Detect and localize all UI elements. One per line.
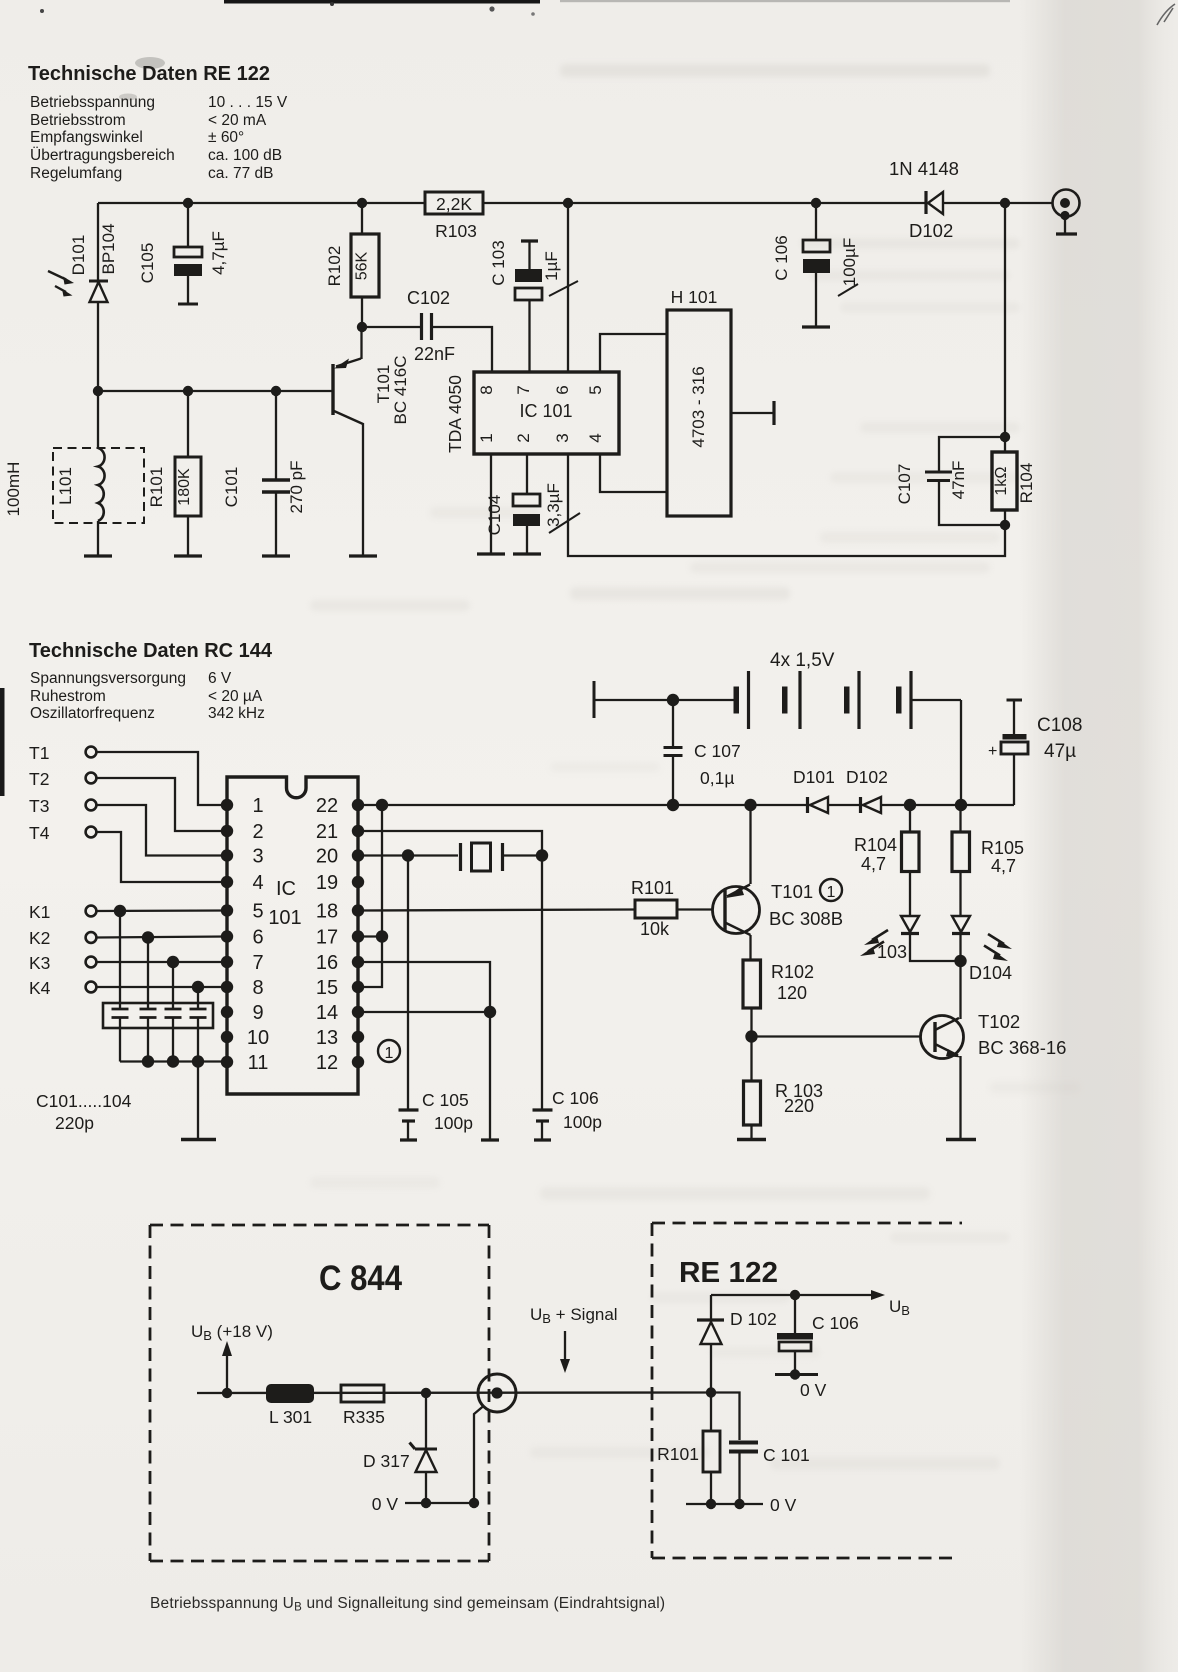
svg-text:C 107: C 107 <box>694 741 741 761</box>
wire K1 to C101 <box>119 911 121 1009</box>
svg-text:6 V: 6 V <box>208 670 232 687</box>
svg-text:D104: D104 <box>969 963 1012 983</box>
label C103 <box>489 240 508 285</box>
symbol circled 1 right <box>820 879 842 901</box>
label BC308B <box>769 908 843 929</box>
capacitor C106 rc <box>533 856 553 1141</box>
svg-text:1kΩ: 1kΩ <box>993 466 1010 495</box>
svg-text:R101: R101 <box>631 878 674 898</box>
svg-text:Technische Daten RC 144: Technische Daten RC 144 <box>29 640 273 662</box>
caption <box>150 1595 665 1614</box>
node D102/R104 junction <box>1000 198 1010 208</box>
svg-text:100mH: 100mH <box>4 462 23 517</box>
svg-text:2: 2 <box>514 433 533 442</box>
svg-text:101: 101 <box>268 907 301 929</box>
svg-text:C 844: C 844 <box>319 1259 402 1298</box>
svg-text:C 105: C 105 <box>422 1090 469 1110</box>
label UB out <box>889 1297 910 1318</box>
svg-text:3: 3 <box>252 846 263 868</box>
label R101 value <box>176 468 193 506</box>
svg-text:4x 1,5V: 4x 1,5V <box>770 650 835 671</box>
wire T3 to pin3 <box>97 805 228 856</box>
label UB +18V <box>191 1322 273 1343</box>
svg-text:47nF: 47nF <box>949 461 968 500</box>
svg-text:56K: 56K <box>354 251 371 280</box>
svg-text:0 V: 0 V <box>800 1380 827 1400</box>
label R102 <box>325 246 344 287</box>
resistor R102 <box>351 203 379 327</box>
label R105 rc <box>981 838 1024 858</box>
svg-text:IC 101: IC 101 <box>519 401 572 421</box>
resistor R103 rc <box>744 1037 761 1140</box>
label R104 value <box>993 466 1010 495</box>
svg-text:D102: D102 <box>846 767 888 787</box>
label C106 rc <box>552 1088 599 1108</box>
transistor T101 BC308B <box>713 805 760 960</box>
resistor R103 <box>425 192 483 214</box>
zener D317 <box>410 1393 438 1503</box>
pin 1 <box>477 433 496 442</box>
svg-text:± 60°: ± 60° <box>208 129 244 146</box>
diode D102 bottom <box>697 1295 724 1393</box>
svg-text:H 101: H 101 <box>671 287 718 307</box>
label BC368-16 <box>978 1037 1066 1058</box>
svg-text:10 . . . 15 V: 10 . . . 15 V <box>208 94 288 111</box>
svg-text:10: 10 <box>247 1027 269 1049</box>
svg-text:C105: C105 <box>138 243 157 284</box>
wire D101 branch <box>97 203 99 391</box>
symbol circled 1 left <box>378 1040 400 1062</box>
svg-text:D102: D102 <box>909 220 953 241</box>
node UB tap <box>222 1388 232 1398</box>
svg-text:1N 4148: 1N 4148 <box>889 158 959 179</box>
label D102 bottom <box>730 1309 777 1329</box>
capacitor C105 rc <box>399 856 419 1141</box>
node C107 rail <box>667 799 679 811</box>
svg-text:1: 1 <box>252 795 263 817</box>
node L101 junction <box>93 386 103 396</box>
title Technische Daten RE 122 <box>28 63 270 85</box>
svg-text:4703 - 316: 4703 - 316 <box>689 366 708 447</box>
wire H101 output <box>731 401 774 425</box>
wire jack sleeve <box>474 1406 484 1503</box>
label C106 <box>772 235 791 280</box>
svg-text:220: 220 <box>784 1096 814 1116</box>
label 101 <box>268 907 301 929</box>
svg-text:342 kHz: 342 kHz <box>208 705 265 722</box>
label D103 <box>877 942 907 962</box>
label C107 value <box>949 461 968 500</box>
wire K1 to pin5 <box>97 909 228 912</box>
capacitor C108 <box>961 700 1028 805</box>
svg-text:D 317: D 317 <box>363 1451 410 1471</box>
capacitors C101-C104 block <box>103 1003 213 1062</box>
svg-text:0 V: 0 V <box>372 1494 399 1514</box>
wire K4 branch to ground <box>197 1061 199 1139</box>
svg-text:22: 22 <box>316 795 338 817</box>
svg-text:0 V: 0 V <box>770 1495 797 1515</box>
resistor R105 rc <box>952 805 970 916</box>
label 4703-316 <box>689 366 708 447</box>
node battery C107 tap <box>667 694 679 706</box>
node bus C102 <box>142 1055 154 1067</box>
resistor R102 rc <box>743 960 761 1037</box>
node D103/D104 junction <box>954 955 966 967</box>
svg-text:+: + <box>988 743 997 760</box>
label D101 rc <box>793 767 835 787</box>
wire pin6 to rail <box>567 203 569 372</box>
svg-text:4: 4 <box>252 872 263 894</box>
capacitor C106 bottom <box>775 1295 818 1375</box>
svg-text:0,1µ: 0,1µ <box>700 768 734 788</box>
label T102 <box>978 1011 1020 1032</box>
svg-text:K1: K1 <box>29 902 50 922</box>
node R105 rail <box>955 799 967 811</box>
wire UB out <box>711 1290 885 1300</box>
svg-text:C107: C107 <box>895 464 914 505</box>
svg-text:T4: T4 <box>29 823 50 843</box>
svg-text:C 103: C 103 <box>489 240 508 285</box>
svg-text:6: 6 <box>553 385 572 394</box>
diode D101 rc <box>808 797 829 813</box>
output jack <box>1053 190 1080 235</box>
node C106 tap <box>811 198 821 208</box>
svg-text:T3: T3 <box>29 796 49 816</box>
svg-text:T2: T2 <box>29 769 49 789</box>
resistor R104 rc <box>902 805 920 916</box>
capacitor C107 rc <box>664 700 683 805</box>
wire K3 to pin7 <box>97 961 228 963</box>
pin 5 <box>586 385 605 394</box>
node C105 tap <box>183 198 193 208</box>
node C101 ground <box>734 1499 744 1509</box>
wire T4 to pin4 <box>97 832 228 882</box>
svg-text:C104: C104 <box>485 495 504 536</box>
pin 4 <box>586 433 605 442</box>
node K4 tap <box>192 981 204 993</box>
label R335 <box>343 1407 385 1427</box>
node C106 bottom tap <box>790 1290 800 1300</box>
pin 3 <box>553 433 572 442</box>
label 220p <box>55 1113 94 1133</box>
label C101 bottom <box>763 1445 810 1465</box>
svg-text:4: 4 <box>586 433 605 442</box>
svg-text:C101: C101 <box>222 467 241 508</box>
svg-text:K2: K2 <box>29 928 50 948</box>
label L301 <box>269 1407 312 1427</box>
svg-text:3: 3 <box>553 433 572 442</box>
label R104 rc <box>854 835 897 855</box>
svg-text:K3: K3 <box>29 953 50 973</box>
capacitor C107 <box>925 437 1005 525</box>
svg-text:R101: R101 <box>147 467 166 508</box>
led D104 <box>952 916 1012 1019</box>
svg-text:2,2K: 2,2K <box>436 194 472 214</box>
label D104 <box>969 963 1012 983</box>
label C106 value <box>838 238 859 296</box>
node C101 junction <box>271 386 281 396</box>
inductor L101 <box>53 391 144 556</box>
svg-text:ca. 77 dB: ca. 77 dB <box>208 165 274 182</box>
svg-text:R104: R104 <box>854 835 897 855</box>
node R102/C102/T101 junction <box>357 322 367 332</box>
svg-text:Technische Daten RE 122: Technische Daten RE 122 <box>28 63 270 85</box>
label C 844 <box>319 1259 402 1298</box>
svg-text:ca. 100 dB: ca. 100 dB <box>208 147 282 164</box>
label C108 value <box>1044 741 1076 762</box>
svg-text:Regelumfang: Regelumfang <box>30 165 122 182</box>
ic left pin dots <box>221 799 233 1068</box>
capacitor C105 <box>174 203 202 304</box>
label C105 value rc <box>434 1113 473 1133</box>
wire pin20 to crystal <box>358 854 458 856</box>
svg-text:Betriebsstrom: Betriebsstrom <box>30 112 126 129</box>
label 100mH <box>4 462 23 517</box>
svg-text:4,7: 4,7 <box>991 856 1016 876</box>
label D317 <box>363 1451 410 1471</box>
svg-text:12: 12 <box>316 1052 338 1074</box>
label C104 <box>485 495 504 536</box>
svg-text:120: 120 <box>777 983 807 1003</box>
label RE 122 box <box>679 1257 778 1289</box>
wire D102 to R104 <box>1004 203 1006 437</box>
terminal K2 <box>29 928 96 948</box>
wire pin14 join <box>358 1011 490 1013</box>
svg-text:C 106: C 106 <box>772 235 791 280</box>
node pin14/16 junction <box>484 1006 496 1018</box>
label R105 value rc <box>991 856 1016 876</box>
spec table RC 144 <box>30 670 265 722</box>
label C106 value rc <box>563 1112 602 1132</box>
svg-text:220p: 220p <box>55 1113 94 1133</box>
arrow UB up <box>222 1341 232 1393</box>
svg-text:C 106: C 106 <box>552 1088 599 1108</box>
label R102 value <box>354 251 371 280</box>
svg-text:R101: R101 <box>657 1444 699 1464</box>
pin 6 <box>553 385 572 394</box>
svg-text:BC 416C: BC 416C <box>391 356 410 425</box>
label TDA 4050 <box>445 375 465 453</box>
svg-text:10k: 10k <box>640 919 670 939</box>
svg-text:13: 13 <box>316 1027 338 1049</box>
svg-text:C108: C108 <box>1037 715 1082 736</box>
svg-text:R102: R102 <box>771 962 814 982</box>
svg-text:20: 20 <box>316 846 338 868</box>
svg-text:L 301: L 301 <box>269 1407 312 1427</box>
node D317 tap <box>421 1388 431 1398</box>
node R101 junction <box>183 386 193 396</box>
label C107 <box>895 464 914 505</box>
wire pin21 to crystal <box>358 831 542 856</box>
svg-text:R104: R104 <box>1017 463 1036 504</box>
svg-text:1: 1 <box>385 1045 394 1062</box>
label IC <box>276 878 296 900</box>
ic right pin dots <box>352 799 364 1068</box>
svg-text:5: 5 <box>586 385 605 394</box>
ic right pin numbers <box>316 795 338 1074</box>
svg-text:1: 1 <box>827 884 836 901</box>
svg-text:19: 19 <box>316 872 338 894</box>
label IC 101 <box>519 401 572 421</box>
label R102 value rc <box>777 983 807 1003</box>
terminal T2 <box>29 769 96 789</box>
node C106 ground <box>790 1369 800 1379</box>
label C106 bottom <box>812 1313 859 1333</box>
label R104 <box>1017 463 1036 504</box>
wire pins 17/15 to rail <box>358 805 382 987</box>
svg-text:C101.....104: C101.....104 <box>36 1091 132 1111</box>
node K1 tap <box>114 905 126 917</box>
wire K4 to C104 <box>197 987 199 1009</box>
capacitor C106 <box>802 203 830 327</box>
label R103 rc <box>775 1081 823 1101</box>
scan ghost bleed-through <box>310 64 1080 1470</box>
label R102 rc <box>771 962 814 982</box>
svg-text:T1: T1 <box>29 743 49 763</box>
dashed box RE122 <box>652 1223 962 1558</box>
wire cap bus to pin11 <box>120 1060 227 1062</box>
transistor T102 BC368-16 <box>921 1016 964 1140</box>
wire pin14/16 to ground <box>481 1012 499 1140</box>
svg-text:100µF: 100µF <box>840 238 859 287</box>
label battery <box>770 650 835 671</box>
scan mark left edge strip <box>0 688 5 796</box>
wire pin1 to ground <box>477 454 505 554</box>
arrow signal down <box>560 1331 570 1373</box>
diode D102 1N4148 <box>926 191 943 214</box>
label R101 <box>147 467 166 508</box>
label D101 <box>69 235 88 276</box>
jack J1 <box>478 1374 516 1412</box>
capacitor C101 bottom <box>711 1393 758 1505</box>
label BC416C <box>391 356 410 425</box>
wire K4 to pin8 <box>97 986 228 988</box>
svg-text:14: 14 <box>316 1002 338 1024</box>
dashed box C844 <box>150 1225 489 1561</box>
svg-text:BP104: BP104 <box>99 223 118 274</box>
label C102 <box>407 288 450 308</box>
wire K2 to C102 <box>147 938 149 1010</box>
label T101 <box>374 365 393 404</box>
svg-text:1: 1 <box>477 433 496 442</box>
label 0V RE122 <box>770 1495 797 1515</box>
svg-text:1µF: 1µF <box>542 251 561 281</box>
node pin17 junction <box>376 930 388 942</box>
scan mark top black line <box>40 0 1010 16</box>
label 0V C106 <box>800 1380 827 1400</box>
label D102 <box>909 220 953 241</box>
label 0V C844 <box>372 1494 399 1514</box>
label R103 value <box>436 194 472 214</box>
svg-text:D 102: D 102 <box>730 1309 777 1329</box>
svg-text:11: 11 <box>248 1052 269 1074</box>
svg-text:R103: R103 <box>435 221 477 241</box>
wire T2 to pin2 <box>97 778 228 831</box>
svg-text:17: 17 <box>316 927 338 949</box>
svg-text:L101: L101 <box>56 467 75 505</box>
node T102 base junction <box>745 1030 757 1042</box>
svg-text:Betriebsspannung UB und Signa: Betriebsspannung UB und Signalleitung si… <box>150 1595 665 1614</box>
node D317 ground <box>421 1498 431 1508</box>
svg-text:270 pF: 270 pF <box>287 461 306 514</box>
label C101...104 <box>36 1091 132 1111</box>
label C108 plus <box>988 743 997 760</box>
svg-text:K4: K4 <box>29 978 51 998</box>
terminal T4 <box>29 823 96 843</box>
svg-text:103: 103 <box>877 942 907 962</box>
label C105 value <box>209 231 228 275</box>
svg-text:< 20 µA: < 20 µA <box>208 688 263 705</box>
svg-text:2: 2 <box>252 821 263 843</box>
wire base T102 <box>752 1035 921 1037</box>
filter H101 4703-316 <box>667 310 731 516</box>
label BP104 <box>99 223 118 274</box>
svg-text:15: 15 <box>316 977 338 999</box>
svg-text:R105: R105 <box>981 838 1024 858</box>
label C107 rc <box>694 741 741 761</box>
label R103 value rc <box>784 1096 814 1116</box>
terminal K1 <box>29 902 96 922</box>
svg-text:7: 7 <box>514 385 533 394</box>
svg-text:16: 16 <box>316 952 338 974</box>
wire pin5 to H101 <box>600 334 667 372</box>
node T101 emitter rail <box>744 799 756 811</box>
svg-text:4,7: 4,7 <box>861 854 886 874</box>
pin 2 <box>514 433 533 442</box>
svg-text:8: 8 <box>477 385 496 394</box>
photodiode D101 BP104 <box>48 271 108 302</box>
svg-text:C 106: C 106 <box>812 1313 859 1333</box>
pin 7 <box>514 385 533 394</box>
svg-text:R102: R102 <box>325 246 344 287</box>
capacitor C104 <box>513 454 541 554</box>
svg-text:Übertragungsbereich: Übertragungsbereich <box>30 146 175 164</box>
terminal T3 <box>29 796 96 816</box>
label T101 rc <box>771 881 813 902</box>
svg-text:R335: R335 <box>343 1407 385 1427</box>
svg-text:9: 9 <box>252 1002 263 1024</box>
svg-text:RE 122: RE 122 <box>679 1257 778 1289</box>
resistor R101 bottom <box>703 1393 720 1505</box>
label UB signal <box>530 1305 618 1326</box>
node bus C103 <box>167 1055 179 1067</box>
terminal T1 <box>29 743 96 763</box>
svg-text:5: 5 <box>252 901 263 923</box>
svg-text:C102: C102 <box>407 288 450 308</box>
svg-text:4,7µF: 4,7µF <box>209 231 228 275</box>
svg-text:BC 368-16: BC 368-16 <box>978 1037 1066 1058</box>
pin 8 <box>477 385 496 394</box>
wire pin16 down <box>358 962 490 1012</box>
ic IC101 body <box>227 777 358 1094</box>
svg-text:T102: T102 <box>978 1011 1020 1032</box>
node R101 ground <box>706 1499 716 1509</box>
terminal K4 <box>29 978 96 998</box>
wire pin4 to H101 <box>600 454 667 492</box>
title Technische Daten RC 144 <box>29 640 273 662</box>
wire K2 to pin6 <box>97 937 228 938</box>
resistor R104 <box>992 437 1017 525</box>
svg-text:18: 18 <box>316 901 338 923</box>
svg-text:7: 7 <box>252 952 263 974</box>
ic IC101 TDA4050 <box>474 372 619 454</box>
node K2 tap <box>142 931 154 943</box>
svg-text:Spannungsversorgung: Spannungsversorgung <box>30 670 186 687</box>
resistor R101 rc <box>635 900 713 918</box>
svg-text:D101: D101 <box>69 235 88 276</box>
label C101 <box>222 467 241 508</box>
svg-text:22nF: 22nF <box>414 344 455 364</box>
